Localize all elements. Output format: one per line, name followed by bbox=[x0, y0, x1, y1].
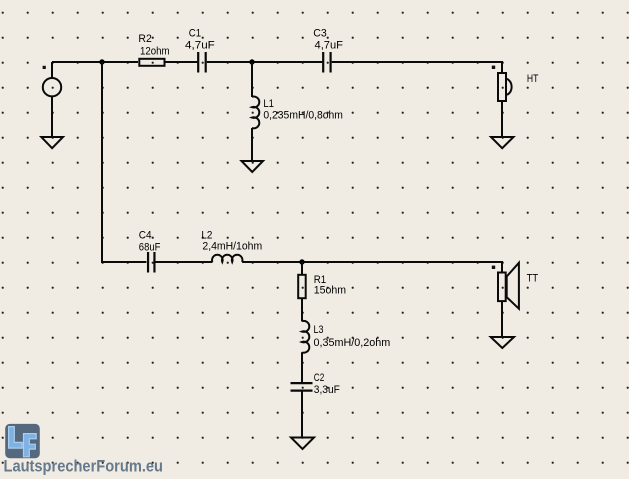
inductor L2 bbox=[212, 255, 242, 262]
wire L1 top bbox=[251, 62, 253, 97]
node junction B (input split) bbox=[99, 59, 104, 64]
ground (C2) bbox=[291, 438, 314, 450]
svg-text:C4: C4 bbox=[139, 229, 152, 241]
ground (TT) bbox=[491, 337, 514, 348]
wire junction B down to bottom rail bbox=[102, 62, 146, 262]
resistor R1 bbox=[298, 275, 306, 298]
wire C2 to ground bbox=[301, 391, 303, 438]
source V1 (signal source circle) bbox=[43, 78, 61, 96]
wire source riser bbox=[51, 62, 53, 78]
svg-text:L3: L3 bbox=[314, 324, 324, 336]
wire source to ground bbox=[51, 96, 53, 137]
ground (HT) bbox=[491, 137, 514, 148]
svg-text:HT: HT bbox=[527, 73, 539, 85]
speaker TT (woofer) bbox=[498, 263, 519, 309]
resistor R2 bbox=[139, 59, 164, 66]
wire top rail: source to R2 bbox=[52, 61, 138, 63]
wire R1 to L3 bbox=[301, 299, 303, 321]
logo LautsprecherForum (LF badge) bbox=[5, 424, 40, 458]
node junction A (top of L1) bbox=[249, 59, 254, 64]
speaker HT (tweeter) bbox=[498, 73, 512, 101]
ground (L1) bbox=[242, 161, 264, 172]
capacitor C1 bbox=[198, 52, 206, 73]
wire R2 to C1 bbox=[165, 61, 197, 63]
svg-text:2,4mH/1ohm: 2,4mH/1ohm bbox=[202, 241, 262, 253]
pin marker TT bbox=[492, 266, 495, 269]
svg-text:TT: TT bbox=[527, 273, 539, 285]
svg-text:15ohm: 15ohm bbox=[314, 285, 346, 297]
wire C4 to L2 bbox=[156, 261, 213, 263]
inductor L1 bbox=[252, 97, 259, 129]
ground (source) bbox=[41, 137, 63, 148]
svg-text:L2: L2 bbox=[201, 229, 212, 241]
svg-text:L1: L1 bbox=[263, 98, 274, 110]
wire C1 to C3 bbox=[207, 61, 323, 63]
pin marker source bbox=[43, 66, 46, 69]
svg-text:3,3uF: 3,3uF bbox=[314, 384, 340, 396]
svg-text:0,35mH/0,2ohm: 0,35mH/0,2ohm bbox=[314, 337, 391, 349]
svg-text:12ohm: 12ohm bbox=[140, 45, 170, 57]
wire L2 to TT speaker bbox=[242, 262, 502, 272]
wire HT to ground bbox=[501, 102, 503, 137]
wire C3 to HT speaker bbox=[332, 62, 502, 73]
capacitor C2 bbox=[291, 383, 313, 391]
svg-text:R2: R2 bbox=[138, 33, 151, 45]
wire TT to ground bbox=[501, 302, 503, 337]
wire node C to R1 bbox=[301, 262, 303, 274]
wire L3 to C2 bbox=[301, 352, 303, 383]
svg-text:LautsprecherForum.eu: LautsprecherForum.eu bbox=[4, 456, 164, 475]
pin marker HT bbox=[492, 66, 495, 69]
svg-text:C2: C2 bbox=[314, 372, 325, 384]
svg-text:4,7uF: 4,7uF bbox=[315, 40, 344, 52]
inductor L3 bbox=[302, 321, 309, 353]
svg-text:0,235mH/0,8ohm: 0,235mH/0,8ohm bbox=[263, 110, 343, 122]
wire L1 to ground bbox=[251, 128, 253, 161]
svg-text:68uF: 68uF bbox=[139, 241, 161, 253]
svg-text:C3: C3 bbox=[313, 27, 327, 39]
svg-text:C1: C1 bbox=[189, 27, 201, 39]
node junction C (top of R1) bbox=[299, 259, 304, 264]
capacitor C3 bbox=[323, 52, 330, 73]
svg-text:4,7uF: 4,7uF bbox=[185, 40, 215, 52]
capacitor C4 bbox=[148, 252, 154, 273]
